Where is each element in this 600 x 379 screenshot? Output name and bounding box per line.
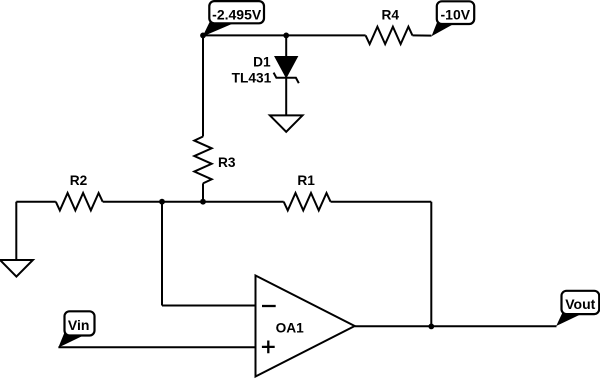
net flag Vout (556, 291, 599, 326)
wire Vin to op-amp non-inverting input (58, 346, 255, 348)
wire -2.495V node down to R3 (202, 35, 204, 136)
junction node D1 / top rail (283, 33, 289, 39)
wire R3 bottom to mid rail (202, 183, 204, 201)
svg-text:-10V: -10V (441, 7, 471, 23)
wire D1 anode from top rail (285, 35, 287, 57)
op-amp OA1 non-inverting input marker (262, 341, 275, 354)
ground symbol (left, under R2 input) (0, 260, 33, 277)
net flag Vin (58, 311, 94, 347)
wire left stub down to ground (15, 202, 17, 260)
wire R4 to -10V flag anchor (412, 34, 431, 36)
wire top rail: D1 junction to R4 (286, 34, 365, 36)
wire op-amp output to Vout anchor (355, 325, 557, 327)
wire D1 cathode to ground (285, 78, 287, 116)
svg-text:R4: R4 (381, 7, 399, 22)
wire R2 to inverting junction (103, 201, 162, 203)
wire mid rail to R1 (203, 201, 284, 203)
svg-text:Vout: Vout (565, 296, 595, 312)
svg-text:-2.495V: -2.495V (212, 7, 262, 23)
wire mid rail: left corner to R2 (16, 201, 56, 203)
diode D1 TL431 cathode bar (274, 73, 299, 84)
wire inverting node down (161, 202, 163, 306)
wire feedback vertical (430, 202, 432, 327)
resistor R1 (284, 193, 331, 210)
svg-text:Vin: Vin (68, 317, 90, 333)
junction node at -2.495V anchor (200, 33, 206, 39)
svg-text:R2: R2 (70, 173, 88, 188)
junction node inverting input / mid rail (159, 199, 165, 205)
svg-text:OA1: OA1 (276, 321, 305, 336)
net flag -2.495V (203, 1, 264, 36)
svg-text:R1: R1 (297, 173, 315, 188)
junction node R3 / mid rail (200, 199, 206, 205)
op-amp OA1 inverting input marker (262, 305, 276, 307)
wire R1 to feedback corner (331, 201, 432, 203)
op-amp OA1 body (256, 276, 355, 377)
wire top rail: node to D1 junction (203, 34, 286, 36)
resistor R4 (366, 27, 413, 44)
svg-text:R3: R3 (218, 155, 236, 170)
ground symbol (under D1) (270, 115, 303, 131)
resistor R3 (194, 137, 211, 184)
junction node output / feedback (428, 324, 434, 330)
svg-text:TL431: TL431 (232, 71, 272, 86)
resistor R2 (56, 193, 103, 210)
diode D1 TL431 triangle (276, 57, 297, 77)
net flag -10V (432, 1, 475, 36)
wire to op-amp inverting input (162, 305, 256, 307)
wire inverting junction to R3 node (162, 201, 203, 203)
svg-text:D1: D1 (253, 54, 271, 69)
